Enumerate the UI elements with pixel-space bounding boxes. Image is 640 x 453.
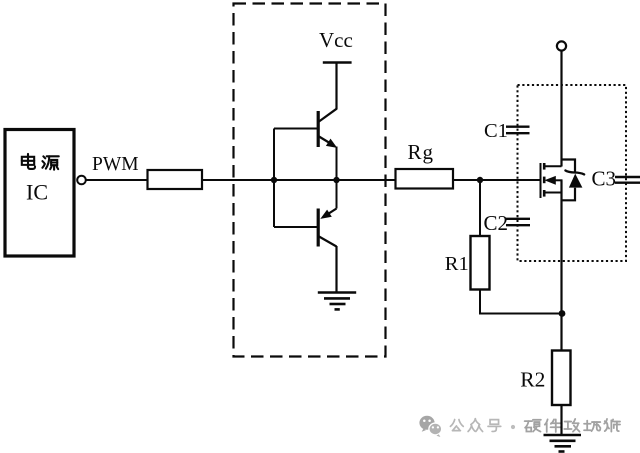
ground (driver) (318, 293, 356, 310)
node input junction (271, 177, 277, 183)
wire PWM to series resistor (86, 179, 148, 181)
wire NPN base (274, 128, 317, 130)
wire R1 bottom to source node (480, 290, 562, 314)
svg-text:C2: C2 (484, 211, 509, 235)
wire source vertical down to R2 (560, 180, 562, 350)
resistor R1 (471, 236, 490, 290)
wire NPN emitter to output node (336, 147, 338, 181)
drain lead (544, 165, 561, 167)
source lead (544, 192, 561, 194)
body arrow (544, 176, 555, 185)
node source junction (559, 310, 566, 317)
resistor R2 (552, 351, 571, 406)
svg-text:C1: C1 (484, 120, 508, 142)
wire R2 to ground (560, 405, 562, 435)
channel segments (543, 163, 546, 170)
resistor Rg (396, 169, 454, 189)
label 电源 (drawn glyphs) (22, 154, 59, 170)
watermark 硬件攻城狮 (drawn glyphs) (525, 419, 620, 432)
svg-text:R1: R1 (445, 253, 469, 275)
wire base bus vertical (273, 129, 275, 228)
transistor Q1 (NPN, top) (318, 109, 336, 147)
watermark wechat logo (419, 416, 441, 437)
node driver output (333, 177, 339, 183)
MOSFET Q3 (N-channel with body diode) (541, 163, 563, 198)
node gate branch (477, 177, 483, 183)
watermark dot separator (511, 425, 515, 429)
svg-text:Vcc: Vcc (319, 28, 353, 52)
svg-text:PWM: PWM (92, 154, 139, 175)
body diode branch (562, 160, 576, 201)
wire resistor to driver input node (202, 179, 274, 181)
svg-text:R2: R2 (520, 368, 545, 392)
diode triangle (569, 174, 583, 188)
wire NPN collector to Vcc (335, 63, 337, 110)
capacitor C1 (506, 127, 530, 134)
dashed box (totem-pole driver) (234, 4, 386, 357)
dotted box (MOSFET model) (518, 85, 627, 261)
gate bar (540, 163, 542, 198)
capacitor C3 (615, 177, 640, 183)
diode cathode wavy bar (565, 171, 584, 175)
svg-text:C3: C3 (592, 167, 617, 191)
drain terminal circle (557, 41, 566, 50)
PWM output terminal circle (77, 176, 86, 185)
wire driver mid rail (274, 179, 396, 181)
series resistor (unlabeled) (148, 170, 203, 189)
svg-text:IC: IC (26, 180, 48, 205)
transistor Q2 (PNP, bottom) (336, 180, 338, 209)
svg-text:Rg: Rg (408, 140, 435, 164)
wire Rg to gate (453, 179, 541, 181)
wire drain vertical (560, 51, 562, 167)
wire PNP collector to ground (335, 246, 337, 293)
body lead (554, 179, 563, 181)
power IC box (5, 130, 74, 257)
capacitor C2 (506, 219, 530, 225)
wire node to R1 (479, 180, 481, 236)
wire PNP base (274, 226, 317, 228)
Vcc supply bar (323, 61, 352, 64)
watermark 公众号 (drawn glyphs) (450, 419, 500, 432)
ground (source return) (544, 435, 582, 452)
